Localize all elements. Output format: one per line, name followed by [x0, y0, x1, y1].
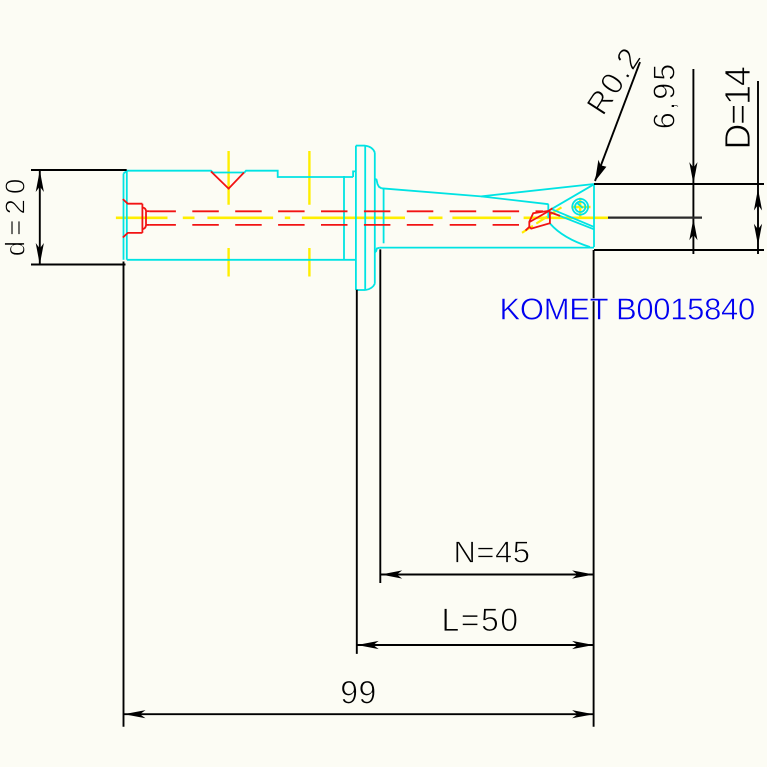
yellow screw crosshair horizontal: [571, 206, 590, 208]
d=20 bottom extension line: [31, 264, 126, 266]
d=20 arrow up: [36, 170, 44, 192]
yellow main centerline: [116, 217, 608, 220]
cyan lower flute curve: [550, 224, 590, 248]
N=45 arrow left: [381, 570, 403, 578]
6,95 arrow up: [689, 219, 697, 241]
L=50 dimension line: [357, 644, 594, 646]
cyan shank top edge with notch: [127, 171, 353, 177]
cyan shank left chamfer vertical: [124, 146, 595, 290]
cyan shank bottom edge: [127, 259, 356, 261]
99 left extension vertical: [123, 262, 125, 727]
cyan flange bottom-right corner arc: [365, 284, 374, 290]
N=45 left extension vertical: [379, 249, 381, 583]
svg-text:99: 99: [340, 675, 377, 711]
cyan ring face vertical: [343, 176, 345, 260]
red insert corner tick: [549, 208, 553, 211]
d=20 dimension line: [39, 170, 41, 264]
red coolant dashed line upper: [149, 210, 543, 212]
cyan screw outer circle: [572, 199, 588, 215]
red coolant inlet port vertical: [141, 204, 143, 233]
cyan screw slot mark: [578, 203, 583, 208]
red V-groove on shank top: [123, 172, 560, 238]
cyan flange left face: [355, 146, 357, 290]
cyan flange right face: [374, 153, 376, 284]
L=50 arrow left: [357, 641, 379, 649]
cyan flange top edge: [356, 145, 365, 147]
cyan step up before flange: [353, 171, 356, 177]
cyan flange top-right corner arc: [365, 146, 375, 153]
cyan tip face vertical: [593, 184, 595, 247]
cyan flange bottom edge: [356, 289, 366, 291]
red coolant dashed line lower: [149, 224, 519, 226]
D=14 top extension line: [594, 183, 764, 185]
L=50 arrow right: [572, 641, 594, 649]
red coolant inlet bottom diagonal: [123, 233, 143, 238]
yellow insert axis diagonal: [522, 207, 562, 233]
red insert inner diagonal: [530, 212, 548, 222]
D=14 arrow up: [754, 189, 762, 211]
D=14 bottom extension line: [594, 249, 764, 251]
centerline extension for 6,95: [608, 217, 702, 219]
cyan cutting edge diagonal: [549, 184, 595, 211]
N=45 dimension line: [380, 574, 594, 576]
cyan pocket slot line upper: [552, 209, 594, 227]
D=14 dimension line: [757, 81, 759, 254]
red coolant nipple vertical: [145, 211, 147, 225]
yellow vertical construction line 1: [227, 151, 229, 277]
d=20 top extension line: [31, 169, 127, 171]
cyan drill top edge sloping: [382, 188, 482, 196]
cyan flange-to-drill top transition: [375, 179, 382, 189]
6,95 arrow down: [689, 162, 697, 184]
red insert outline: [529, 211, 550, 229]
R0.2 leader arrowhead: [595, 160, 606, 182]
svg-text:d=20: d=20: [0, 174, 31, 257]
svg-text:N=45: N=45: [454, 535, 531, 570]
R0.2 leader line: [595, 62, 640, 181]
cyan flute lower line: [481, 196, 549, 204]
svg-text:D=14: D=14: [717, 67, 758, 149]
d=20 arrow down: [36, 243, 44, 265]
yellow screw crosshair vertical: [579, 198, 581, 217]
red coolant nipple bottom line: [146, 224, 149, 226]
cyan screw inner circle: [575, 202, 585, 212]
6,95 dimension line: [692, 69, 694, 254]
99 arrow left: [124, 710, 146, 718]
right extension vertical at tip: [593, 250, 595, 727]
cyan flange-to-drill bottom transition: [375, 248, 380, 253]
yellow vertical construction line 2: [308, 151, 310, 277]
svg-text:6,95: 6,95: [648, 62, 682, 129]
red coolant nipple top line: [146, 210, 149, 212]
svg-text:KOMET B0015840: KOMET B0015840: [500, 292, 755, 327]
red coolant inlet top bump arc: [142, 207, 146, 211]
cyan flute short vertical at pocket: [547, 204, 549, 218]
svg-text:L=50: L=50: [441, 602, 519, 638]
red coolant inlet top diagonal: [123, 199, 143, 204]
cyan drill bottom edge: [380, 247, 594, 249]
cyan flute upper line to tip corner: [481, 184, 594, 196]
cyan shank left edge vertical: [126, 171, 128, 260]
cyan drill joint vertical: [383, 189, 385, 243]
99 arrow right: [572, 710, 594, 718]
L=50 left extension vertical: [356, 290, 358, 654]
red coolant inlet bottom bump arc: [142, 225, 146, 229]
N=45 arrow right: [572, 570, 594, 578]
cyan flange chamfer inner vertical: [364, 146, 366, 290]
cyan pocket slot line lower: [550, 212, 594, 229]
D=14 arrow down: [754, 224, 762, 246]
cyan left chamfer diagonal: [124, 171, 127, 174]
99 dimension line: [124, 713, 595, 715]
red insert lower-left tail: [526, 227, 530, 231]
red insert right tail: [551, 213, 561, 216]
